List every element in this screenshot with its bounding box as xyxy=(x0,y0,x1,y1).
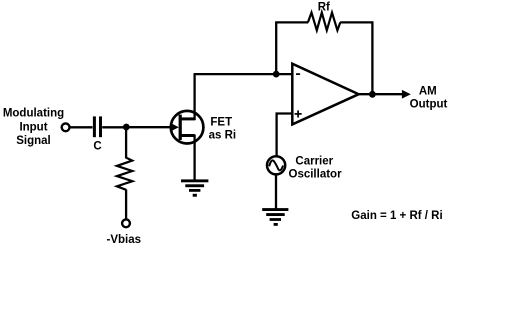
oscillator sine wave xyxy=(269,160,283,170)
wire: Rf right horizontal xyxy=(340,21,373,23)
svg-text:as Ri: as Ri xyxy=(209,129,237,141)
wire: top rail from drain to op-amp inverting input xyxy=(194,73,293,75)
FET Q1 circle xyxy=(171,111,204,144)
wire: node B up to Rf xyxy=(275,22,277,74)
ground (below FET) xyxy=(181,179,208,196)
wire: op-amp non-inverting input to oscillator xyxy=(277,114,293,157)
op-amp U1 triangle xyxy=(292,64,358,125)
svg-text:-Vbias: -Vbias xyxy=(107,234,142,246)
svg-text:Input: Input xyxy=(19,122,47,134)
svg-text:Signal: Signal xyxy=(16,135,51,147)
-Vbias terminal xyxy=(122,219,130,227)
svg-text:Gain = 1 + Rf / Ri: Gain = 1 + Rf / Ri xyxy=(351,210,442,222)
wire: node A to FET gate xyxy=(126,126,171,128)
carrier oscillator circle xyxy=(267,156,285,174)
op-amp minus sign (pin -) xyxy=(296,73,300,75)
wire: node A down to bias resistor xyxy=(125,127,127,158)
wire: FET drain up to top rail xyxy=(193,74,195,120)
op-amp plus sign (pin +) xyxy=(295,110,302,117)
output arrowhead xyxy=(402,90,411,99)
svg-text:Oscillator: Oscillator xyxy=(289,168,343,180)
node B (junction dot at inverting input / Rf tap) xyxy=(273,71,280,78)
node A (junction dot) xyxy=(123,124,130,131)
ground (below oscillator) xyxy=(262,208,288,226)
wire: input terminal to capacitor C xyxy=(70,126,93,128)
gate arrowhead of FET xyxy=(170,123,179,132)
input terminal (Modulating Input Signal) xyxy=(62,123,70,131)
capacitor C xyxy=(93,116,102,137)
resistor R (bias resistor) xyxy=(117,158,132,190)
wire: bias resistor to -Vbias terminal xyxy=(125,189,127,218)
wire: capacitor C to node A xyxy=(102,126,126,128)
wire: op-amp output to AM Output arrow xyxy=(358,93,404,95)
svg-text:Rf: Rf xyxy=(318,2,330,14)
wire: Rf left horizontal xyxy=(275,21,308,23)
wire: oscillator to ground xyxy=(275,174,277,209)
FET drain lead (inside) xyxy=(180,117,195,120)
FET source lead (inside) xyxy=(180,134,195,137)
svg-text:Output: Output xyxy=(410,99,448,111)
svg-text:C: C xyxy=(93,140,101,152)
svg-text:FET: FET xyxy=(210,116,232,128)
svg-text:Modulating: Modulating xyxy=(3,108,64,120)
svg-text:AM: AM xyxy=(419,85,437,97)
resistor Rf zigzag xyxy=(308,13,340,31)
svg-text:Carrier: Carrier xyxy=(295,155,333,167)
FET channel bar xyxy=(179,115,182,140)
wire: FET source down to ground xyxy=(193,135,195,181)
node C (output junction dot) xyxy=(369,91,376,98)
wire: Rf right side down to output node xyxy=(371,22,373,94)
